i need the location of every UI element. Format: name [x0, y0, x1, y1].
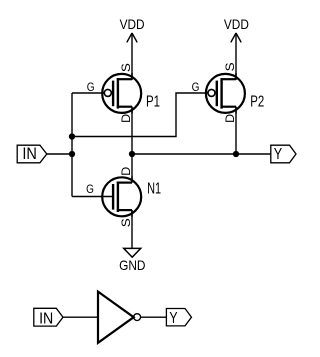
- svg-text:S: S: [119, 63, 133, 72]
- wire output node to Y flag: [132, 153, 271, 155]
- svg-text:GND: GND: [119, 258, 145, 273]
- svg-text:Y: Y: [274, 146, 283, 163]
- svg-text:IN: IN: [22, 145, 37, 163]
- svg-text:P2: P2: [250, 93, 264, 110]
- wire inverter output to Y flag: [141, 316, 167, 318]
- junction dot at (72,154): [69, 151, 75, 157]
- wire N1 gate horizontal: [72, 196, 112, 198]
- svg-text:VDD: VDD: [120, 17, 145, 32]
- power symbol VDD (right, above P2): [231, 33, 241, 42]
- svg-text:S: S: [119, 218, 133, 227]
- junction dot at (236,154): [233, 151, 239, 157]
- svg-text:G: G: [86, 182, 94, 196]
- svg-text:D: D: [119, 114, 133, 123]
- wire VDD to P1 source: [131, 33, 133, 80]
- svg-text:IN: IN: [39, 310, 53, 327]
- nmos transistor N1: [102, 176, 141, 217]
- wire drain column P1.D to N1.D: [131, 107, 133, 183]
- svg-text:P1: P1: [146, 93, 160, 110]
- svg-text:G: G: [87, 80, 95, 94]
- power symbol VDD (left, above P1): [127, 33, 137, 42]
- inverter output bubble: [134, 314, 141, 321]
- junction dot at (72,136.5): [69, 133, 75, 139]
- wire P2 drain down to output: [235, 107, 237, 154]
- wire VDD to P2 source: [235, 33, 237, 80]
- wire IN vertical net x=72 (P1 gate to N1 gate): [71, 93, 73, 197]
- pmos transistor P2: [206, 73, 245, 114]
- input flag IN (top schematic): [17, 145, 47, 163]
- svg-text:D: D: [119, 166, 133, 175]
- junction dot at (132,154): [129, 151, 135, 157]
- output flag Y (bottom inverter): [166, 309, 191, 326]
- ground symbol GND: [124, 248, 141, 257]
- svg-text:G: G: [192, 80, 200, 94]
- svg-text:D: D: [223, 114, 237, 123]
- output flag Y (top schematic): [271, 145, 296, 163]
- pmos transistor P1: [102, 73, 141, 114]
- svg-text:N1: N1: [147, 180, 161, 197]
- wire P1 gate horizontal: [72, 92, 105, 94]
- wire IN flag to inverter input: [63, 316, 98, 318]
- inverter gate U1 triangle: [98, 292, 134, 343]
- svg-text:Y: Y: [169, 310, 178, 327]
- svg-text:S: S: [223, 62, 237, 71]
- input flag IN (bottom inverter): [34, 308, 63, 326]
- wire N1 source to GND: [131, 210, 133, 248]
- svg-text:VDD: VDD: [224, 17, 249, 32]
- wire branch to P2 gate: [72, 93, 208, 137]
- wire IN flag to node (72,154): [47, 153, 72, 155]
